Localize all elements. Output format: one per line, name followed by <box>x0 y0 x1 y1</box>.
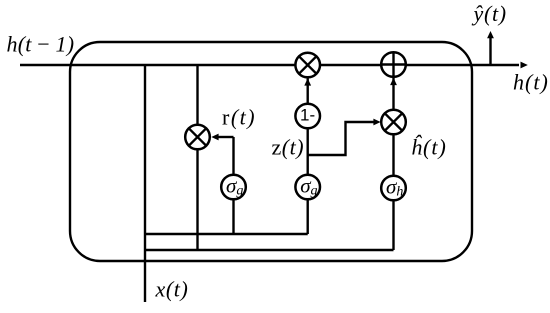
svg-text:ĥ(t): ĥ(t) <box>411 135 447 160</box>
svg-text:h(t): h(t) <box>513 70 549 95</box>
svg-text:1-: 1- <box>300 106 315 125</box>
svg-text:r(t): r(t) <box>222 105 256 130</box>
svg-text:z(t): z(t) <box>272 135 305 160</box>
svg-text:ŷ(t): ŷ(t) <box>472 1 507 26</box>
svg-text:h(t − 1): h(t − 1) <box>7 32 75 57</box>
svg-text:x(t): x(t) <box>155 277 189 302</box>
